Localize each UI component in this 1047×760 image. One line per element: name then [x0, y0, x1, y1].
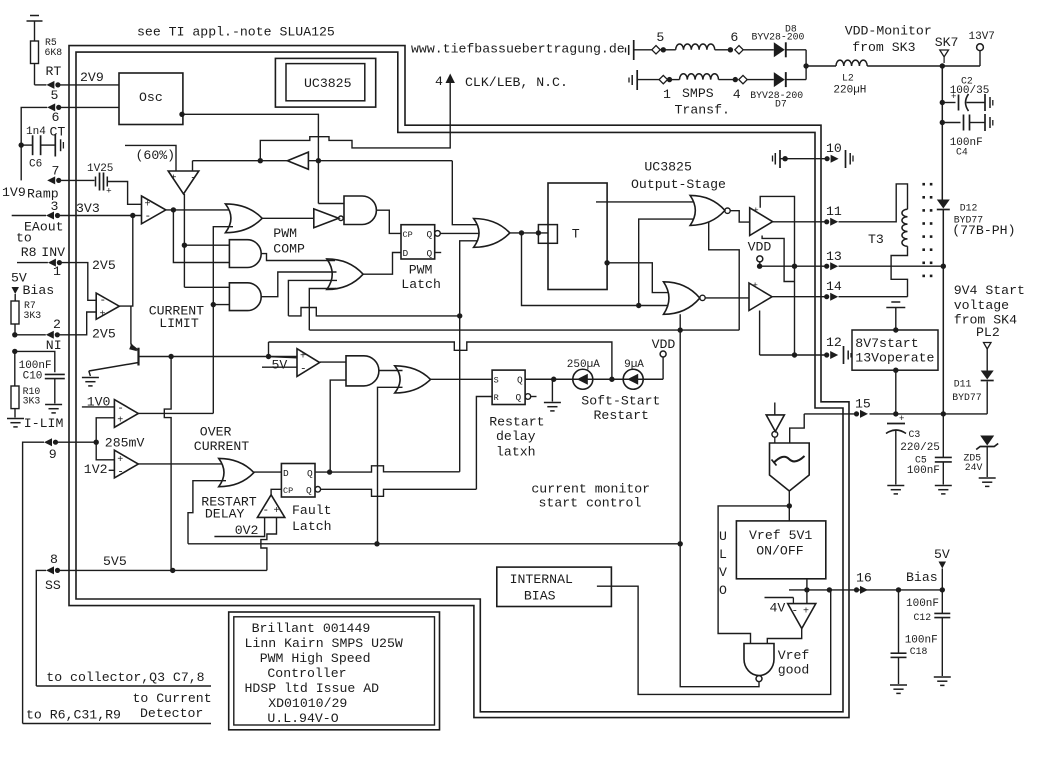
- wire T output lower to NOR2: [604, 260, 609, 265]
- svg-text:1V9: 1V9: [2, 185, 26, 200]
- wire NOR1 to driver1: [730, 211, 750, 222]
- svg-text:from SK3: from SK3: [852, 40, 915, 55]
- oscillator block Osc: [119, 73, 183, 125]
- svg-text:C12: C12: [914, 612, 932, 623]
- svg-text:T3: T3: [868, 232, 884, 247]
- svg-text:current monitor: current monitor: [531, 482, 650, 497]
- svg-text:3V3: 3V3: [76, 201, 100, 216]
- wire clock to output OR: [452, 161, 481, 225]
- svg-text:2: 2: [53, 317, 61, 332]
- svg-text:L: L: [719, 547, 727, 562]
- Vref block: [736, 521, 825, 579]
- diode D11 BYD77: [981, 371, 994, 380]
- svg-text:-: -: [792, 606, 799, 618]
- svg-text:Q: Q: [427, 248, 433, 259]
- svg-text:PWM: PWM: [273, 226, 297, 241]
- wire fault line to output OR: [460, 241, 481, 472]
- wire vref to pin16 line: [806, 579, 808, 604]
- svg-text:(77B-PH): (77B-PH): [952, 223, 1015, 238]
- current source 250uA: [573, 369, 593, 389]
- ground under C12: [934, 676, 951, 678]
- wire R5 to pin5 RT: [34, 64, 36, 85]
- svg-text:+: +: [274, 506, 280, 517]
- svg-text:-: -: [117, 403, 124, 415]
- wire fault Q line: [315, 466, 460, 472]
- svg-text:www.tiefbassuebertragung.de: www.tiefbassuebertragung.de: [411, 42, 625, 57]
- transformer T3 winding: [839, 184, 908, 222]
- CT pin cap symbol: [54, 134, 56, 157]
- svg-text:13: 13: [826, 249, 842, 264]
- svg-text:220µH: 220µH: [833, 85, 866, 97]
- wire AND to PWM latch CP: [376, 210, 401, 233]
- svg-text:4: 4: [733, 87, 741, 102]
- svg-text:1: 1: [663, 87, 671, 102]
- wire fault q to AND: [330, 380, 346, 472]
- wire 60pct comparator output: [183, 194, 185, 287]
- wire 8V7 box to pin15 rail: [893, 368, 898, 373]
- svg-text:2V5: 2V5: [92, 258, 116, 273]
- comparator 60% duty: [168, 171, 199, 194]
- svg-text:+: +: [752, 280, 758, 291]
- svg-text:start control: start control: [539, 496, 642, 511]
- wire restart feedback to OR: [188, 481, 226, 544]
- svg-text:8V7start: 8V7start: [855, 336, 918, 351]
- svg-text:Fault: Fault: [292, 503, 332, 518]
- OR gate output stage enable: [474, 219, 510, 248]
- svg-text:9V4 Start: 9V4 Start: [954, 283, 1025, 298]
- wire battery to EA comparator + input: [107, 182, 141, 205]
- wire current limit vertical: [213, 227, 233, 414]
- OR gate soft start: [395, 366, 431, 393]
- wire pin7 to battery: [61, 179, 95, 181]
- svg-text:C18: C18: [910, 646, 928, 657]
- svg-text:2V9: 2V9: [80, 70, 104, 85]
- transformer core dots: [922, 183, 925, 186]
- wire OR to fault latch D: [254, 471, 282, 473]
- svg-text:V: V: [719, 565, 727, 580]
- svg-text:100nF: 100nF: [906, 598, 939, 610]
- svg-text:RT: RT: [46, 64, 62, 79]
- svg-text:+: +: [899, 414, 904, 424]
- svg-text:PL2: PL2: [976, 325, 1000, 340]
- svg-text:9: 9: [49, 447, 57, 462]
- svg-text:D: D: [403, 248, 409, 259]
- svg-text:5V: 5V: [272, 358, 288, 373]
- diode D12 BYD77: [937, 200, 950, 209]
- wire osc output: [179, 112, 184, 117]
- wire ilim net: [171, 356, 297, 358]
- fault latch: [281, 464, 315, 498]
- pin 5 RT: [46, 81, 54, 89]
- wire transistor base to ilim net: [139, 356, 172, 358]
- resistor R5 6K8: [31, 41, 39, 64]
- inverter pwm comp: [314, 209, 339, 228]
- wire 0V2 minus ref: [214, 517, 264, 536]
- pin 6 CT: [47, 103, 55, 111]
- svg-text:Latch: Latch: [292, 519, 332, 534]
- svg-text:Latch: Latch: [401, 277, 441, 292]
- svg-text:-: -: [300, 364, 307, 376]
- wire soft start rail: [525, 378, 663, 380]
- diode D7 BYV28-200: [774, 72, 785, 87]
- wire restart bus: [188, 543, 680, 545]
- svg-text:ON/OFF: ON/OFF: [756, 544, 803, 559]
- pin 9: [44, 438, 52, 446]
- wire pin15 to sawtooth: [790, 414, 805, 443]
- wire bus2 riser to OR D: [309, 289, 336, 331]
- SMPS transformer primary winding 1-4: [637, 79, 659, 81]
- wire NOR2 bottom input vref good: [679, 314, 681, 544]
- svg-text:5: 5: [656, 30, 664, 45]
- VDD terminal soft start: [662, 357, 664, 379]
- svg-text:15: 15: [855, 397, 871, 412]
- pin12 cap symbol: [843, 346, 845, 364]
- driver 1: [750, 208, 773, 236]
- wire T output upper to NOR1: [596, 201, 698, 203]
- wire 0V2 out to CP: [271, 489, 281, 495]
- comparator 0V2: [257, 495, 284, 518]
- svg-text:100nF: 100nF: [907, 465, 940, 477]
- ground under C3: [887, 485, 904, 487]
- svg-text:C4: C4: [956, 147, 968, 158]
- svg-text:250µA: 250µA: [567, 359, 600, 371]
- inverter vdd monitor: [774, 403, 776, 415]
- svg-text:to Current: to Current: [133, 691, 212, 706]
- pin 4 CLK/LEB: [446, 74, 455, 84]
- svg-text:CP: CP: [403, 230, 413, 240]
- svg-text:BYD77: BYD77: [952, 392, 982, 403]
- svg-text:XD01010/29: XD01010/29: [268, 696, 347, 711]
- pin 15: [854, 411, 859, 416]
- ground above R5: [30, 15, 39, 17]
- startup threshold box 8V7: [852, 330, 938, 370]
- pin 2 NI: [46, 331, 54, 339]
- svg-text:COMP: COMP: [273, 242, 305, 257]
- svg-text:10: 10: [826, 141, 842, 156]
- svg-text:Detector: Detector: [140, 706, 203, 721]
- wire start rail down: [942, 210, 944, 414]
- connector PL2: [984, 343, 992, 350]
- svg-text:16: 16: [856, 571, 872, 586]
- svg-text:good: good: [778, 663, 810, 678]
- wire bus1 riser to OR D: [288, 280, 337, 316]
- svg-text:Bias: Bias: [23, 283, 55, 298]
- OR gate pwm comp A: [225, 204, 262, 233]
- svg-text:I-LIM: I-LIM: [24, 416, 64, 431]
- svg-text:to R6,C31,R9: to R6,C31,R9: [26, 708, 121, 723]
- ground under transistor: [82, 377, 99, 379]
- IC boundary outer frame: [69, 46, 849, 718]
- svg-text:to collector,Q3 C7,8: to collector,Q3 C7,8: [46, 670, 204, 685]
- sawtooth generator block: [770, 443, 810, 491]
- ground under C5: [935, 485, 952, 487]
- wire driver2 lower rail pin 12: [759, 311, 761, 356]
- pin 3 EAout: [46, 212, 54, 220]
- wire NOR1 bottom input from bus2: [709, 223, 740, 331]
- wire pin 15 rail: [870, 413, 988, 415]
- transistor clamp: [137, 348, 139, 366]
- pin10 cap right: [845, 150, 847, 168]
- svg-text:SMPS: SMPS: [682, 86, 714, 101]
- wire SS pin to 0V2 plus: [261, 517, 277, 570]
- wire ulvo loop: [718, 506, 789, 644]
- 60% duty line: [125, 145, 176, 171]
- svg-text:Controller: Controller: [267, 666, 346, 681]
- svg-text:T: T: [572, 227, 580, 242]
- wire 342 line with hop: [269, 342, 612, 379]
- wire pin4 to clock line: [260, 82, 450, 161]
- SMPS transformer primary winding 5-6: [634, 49, 652, 51]
- svg-text:6: 6: [730, 30, 738, 45]
- svg-text:3K3: 3K3: [23, 396, 41, 407]
- wire driver1 vdd loop: [760, 196, 794, 355]
- wire internal bias to 5V rail: [597, 586, 831, 694]
- svg-text:voltage: voltage: [954, 298, 1009, 313]
- svg-text:Vref: Vref: [778, 648, 810, 663]
- svg-text:285mV: 285mV: [105, 436, 145, 451]
- UC3825 label box: [275, 58, 375, 107]
- svg-text:1n4: 1n4: [26, 126, 46, 138]
- svg-text:-: -: [190, 173, 197, 185]
- svg-text:100nF: 100nF: [905, 635, 938, 647]
- svg-text:PWM: PWM: [409, 263, 433, 278]
- svg-text:-: -: [100, 295, 107, 307]
- ground under ZD5: [979, 477, 996, 479]
- svg-text:5V: 5V: [934, 547, 950, 562]
- winding start marker lower: [636, 70, 638, 90]
- NOR gate output B: [664, 282, 700, 315]
- svg-text:OVER: OVER: [200, 425, 232, 440]
- pin 10 leb cap left: [772, 156, 774, 162]
- svg-text:U: U: [719, 529, 727, 544]
- svg-text:R: R: [494, 393, 499, 403]
- svg-text:Vref 5V1: Vref 5V1: [749, 528, 812, 543]
- svg-text:Linn Kairn SMPS U25W: Linn Kairn SMPS U25W: [245, 636, 403, 651]
- pin 7 Ramp: [47, 176, 55, 184]
- wire pin9 285mV net: [58, 441, 97, 443]
- zener ZD5 24V: [980, 436, 994, 446]
- wire latch Qbar to output OR: [440, 232, 482, 234]
- svg-text:13Voperate: 13Voperate: [855, 351, 934, 366]
- svg-text:4: 4: [435, 74, 443, 89]
- svg-text:HDSP ltd Issue AD: HDSP ltd Issue AD: [245, 681, 380, 696]
- pin 12: [824, 352, 829, 357]
- svg-text:Transf.: Transf.: [675, 103, 730, 118]
- IC boundary inner frame: [76, 52, 843, 712]
- AND gate clock pulse: [344, 196, 376, 225]
- svg-text:+: +: [106, 186, 112, 197]
- svg-text:24V: 24V: [965, 462, 983, 473]
- svg-text:C6: C6: [29, 159, 42, 171]
- svg-text:CP: CP: [283, 486, 293, 496]
- wire OR D output to latch D input: [363, 253, 401, 275]
- wire pin 13: [760, 265, 827, 267]
- svg-text:SS: SS: [45, 578, 61, 593]
- svg-text:Output-Stage: Output-Stage: [631, 177, 726, 192]
- driver 2: [749, 283, 772, 311]
- svg-text:1: 1: [53, 264, 61, 279]
- wire bus2: [309, 329, 739, 331]
- ground under C10: [45, 404, 62, 406]
- inductor L2 220uH: [806, 65, 836, 67]
- svg-text:6: 6: [52, 110, 60, 125]
- wire VDD rail down: [941, 66, 943, 200]
- svg-text:delay: delay: [496, 429, 536, 444]
- svg-text:Osc: Osc: [139, 90, 163, 105]
- wire AND B out to OR D: [261, 254, 335, 261]
- wire EAout feedback to AND B: [173, 210, 229, 263]
- svg-text:+: +: [300, 352, 306, 363]
- wire inverter output to 60% comparator input: [192, 161, 194, 171]
- error amp comparator 3V3: [142, 196, 166, 224]
- svg-text:U.L.94V-O: U.L.94V-O: [267, 711, 338, 726]
- OR gate overcurrent: [219, 458, 254, 486]
- wire 4V comparator out to NAND: [767, 629, 801, 644]
- svg-text:6K8: 6K8: [45, 47, 63, 58]
- pin 13: [824, 264, 829, 269]
- wire ss node riser to 342 line: [268, 342, 270, 357]
- svg-text:D11: D11: [954, 379, 972, 390]
- winding start marker upper: [633, 40, 635, 60]
- wire OR down to NOR2: [522, 233, 672, 306]
- toggle flip-flop T box: [548, 183, 607, 290]
- wire sawtooth out: [788, 491, 790, 521]
- AND gate soft start: [346, 356, 379, 386]
- wire pin6 to Osc: [61, 106, 119, 108]
- capacitor C4 100nF: [940, 120, 945, 125]
- svg-text:+: +: [117, 416, 123, 427]
- svg-text:BIAS: BIAS: [524, 589, 556, 604]
- resistor R10 3K3: [14, 351, 16, 386]
- wire pin2 to comparator plus: [59, 312, 96, 335]
- svg-text:8: 8: [50, 552, 58, 567]
- svg-text:0V2: 0V2: [235, 523, 259, 538]
- wire pin8 left to collector note: [36, 570, 46, 686]
- svg-text:(60%): (60%): [136, 148, 176, 163]
- wire clock line: [193, 160, 288, 162]
- pin 10: [825, 156, 830, 161]
- svg-text:Bias: Bias: [906, 570, 938, 585]
- svg-text:2V5: 2V5: [92, 327, 116, 342]
- wire AND C out to OR D: [261, 272, 336, 297]
- ground on rail: [551, 379, 553, 401]
- svg-text:Brillant 001449: Brillant 001449: [252, 621, 371, 636]
- wire pin6 left down to C6: [21, 107, 47, 180]
- svg-text:CLK/LEB, N.C.: CLK/LEB, N.C.: [465, 75, 568, 90]
- svg-text:DELAY: DELAY: [205, 507, 245, 522]
- wire restart line to OR: [378, 387, 403, 544]
- svg-text:latxh: latxh: [496, 445, 536, 460]
- AND gate pwm comp B: [229, 240, 261, 268]
- svg-text:1V2: 1V2: [84, 462, 108, 477]
- pin 1 INV: [48, 259, 56, 267]
- svg-text:D7: D7: [775, 99, 787, 110]
- svg-text:12: 12: [826, 335, 842, 350]
- wire rectifier junction: [805, 50, 807, 80]
- svg-text:+: +: [951, 92, 956, 102]
- svg-text:Soft-Start: Soft-Start: [581, 394, 660, 409]
- restart delay latch: [492, 370, 525, 404]
- pin 16 bias rail: [789, 589, 943, 591]
- title box: [229, 612, 440, 730]
- OR gate pwm latch D: [327, 259, 363, 290]
- svg-text:C10: C10: [23, 371, 43, 383]
- svg-text:D12: D12: [960, 203, 978, 214]
- capacitor C10 100nF: [12, 349, 17, 354]
- terminal 13V7: [942, 65, 980, 67]
- svg-text:UC3825: UC3825: [304, 76, 352, 91]
- wire pin8: [60, 569, 267, 571]
- svg-text:4V: 4V: [770, 601, 786, 616]
- svg-text:Q: Q: [427, 229, 433, 240]
- svg-text:to: to: [16, 231, 32, 246]
- wire bus1: [288, 308, 459, 316]
- wire pin3 to comparator: [12, 215, 46, 217]
- svg-text:SK7: SK7: [935, 35, 959, 50]
- svg-text:220/25: 220/25: [900, 442, 940, 454]
- svg-text:7: 7: [52, 164, 60, 179]
- wire vref good feedback: [680, 544, 759, 687]
- svg-text:+: +: [117, 455, 123, 466]
- diode D8 BYV28-200: [774, 42, 785, 57]
- capacitor C6 1n4: [19, 142, 24, 147]
- comparator 1V2: [114, 450, 138, 478]
- svg-text:13V7: 13V7: [969, 31, 995, 43]
- svg-text:Restart: Restart: [594, 408, 649, 423]
- svg-text:LIMIT: LIMIT: [159, 316, 199, 331]
- ground under R10 I-LIM: [7, 418, 24, 420]
- svg-text:CT: CT: [50, 125, 66, 140]
- wire pin 14 output: [772, 296, 827, 298]
- wire pin 13 to start rail: [839, 265, 944, 267]
- wire pin5 to Osc: [60, 84, 119, 86]
- wire ss riser: [164, 357, 171, 571]
- wire R7 to pin2 node: [14, 324, 16, 335]
- svg-text:PWM High Speed: PWM High Speed: [260, 651, 371, 666]
- wire 1V2 output to overcurrent OR: [138, 463, 226, 465]
- svg-text:UC3825: UC3825: [644, 160, 692, 175]
- svg-text:VDD-Monitor: VDD-Monitor: [845, 24, 932, 39]
- pin 16: [854, 587, 859, 592]
- svg-text:BYV28-200: BYV28-200: [752, 32, 805, 43]
- svg-text:+: +: [100, 310, 106, 321]
- svg-text:14: 14: [826, 279, 842, 294]
- svg-text:-: -: [117, 467, 124, 479]
- pin 11: [824, 219, 829, 224]
- wire driver1 lower rail: [762, 236, 794, 282]
- current source 9uA: [623, 369, 643, 389]
- ground above 8V7 box: [891, 301, 900, 303]
- wire 1V0 output to current limit: [138, 412, 213, 414]
- svg-text:+: +: [171, 174, 177, 185]
- svg-text:+: +: [145, 200, 151, 211]
- capacitor C3 220/25: [887, 423, 905, 425]
- svg-text:D: D: [283, 468, 289, 479]
- PWM latch: [401, 225, 435, 259]
- svg-text:5: 5: [51, 88, 59, 103]
- svg-text:C5: C5: [915, 455, 927, 466]
- wire pin9 left to detector: [23, 442, 44, 723]
- inverter clock: [287, 152, 308, 169]
- svg-text:S: S: [494, 376, 499, 386]
- NAND gate vref good: [744, 644, 774, 676]
- svg-text:+: +: [753, 205, 759, 216]
- svg-text:9µA: 9µA: [624, 359, 644, 371]
- svg-text:VDD: VDD: [652, 337, 676, 352]
- ground under C18: [890, 684, 907, 686]
- pin 14: [824, 294, 829, 299]
- svg-text:-: -: [263, 505, 270, 517]
